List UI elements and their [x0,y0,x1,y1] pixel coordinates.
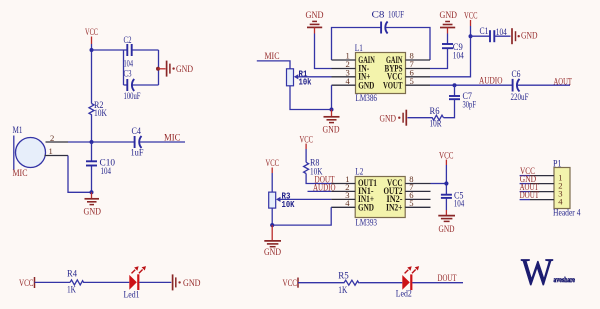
wire R4 to Led1 [84,281,129,283]
svg-text:220uF: 220uF [511,93,529,103]
svg-text:GND: GND [358,204,374,214]
wire VCC to pin 6 [430,26,471,77]
pin 5 of U2 [405,198,430,208]
svg-text:VCC: VCC [283,279,298,289]
pin 3 of U2 [331,190,355,200]
svg-text:GND: GND [323,126,340,136]
wire R1 wiper to pin 3 [298,76,331,78]
svg-text:1K: 1K [67,285,76,295]
wire VCC to R4 [35,281,71,283]
svg-text:GND: GND [176,65,193,75]
power port VCC (top-left) [85,28,98,44]
pin 1 of P1 [530,175,554,177]
svg-text:10K: 10K [282,199,295,210]
svg-text:LM393: LM393 [356,218,378,228]
wire MIC to R1 top [257,61,290,69]
pin 2 of P1 [530,183,554,185]
ground under C5 [438,198,455,235]
capacitor C6 220uF [511,70,529,103]
pin 4 of U2 [331,198,355,208]
wire C8 gain loop [332,28,431,61]
svg-text:GND: GND [84,208,102,218]
svg-text:10UF: 10UF [388,11,404,21]
svg-text:C4: C4 [132,127,142,137]
wire C6 to AOUT [518,84,570,86]
wire to C1 [471,35,490,37]
pin 3 of U1 [332,68,356,78]
pin 1 of U2 [331,174,355,184]
svg-text:LM386: LM386 [356,94,378,104]
svg-text:MIC: MIC [13,169,28,179]
power port VCC (Led1 row) [19,277,35,289]
resistor R2 10K [89,101,107,119]
node pin8/C5 [444,181,448,185]
ground under R3 [264,225,281,258]
svg-text:5: 5 [410,76,414,86]
potentiometer R3 10K [269,190,295,210]
resistor R4 1K [67,269,84,295]
svg-text:10R: 10R [430,120,442,130]
wire Led1 to GND [139,281,171,283]
wire VCC to pin 8 [445,165,447,194]
wire pin8 to VCC node [431,183,447,185]
capacitor C10 104 [86,159,115,178]
pin 2 of M1 [46,133,69,143]
pin 6 of U2 [405,190,430,200]
svg-text:W: W [521,252,553,294]
svg-text:Header 4: Header 4 [553,209,581,219]
power port GND (bar style, left of R6) [380,110,433,126]
capacitor C8 10UF [372,11,405,34]
svg-text:R6: R6 [430,107,440,117]
pin 6 of U1 [406,68,431,78]
pin 2 of U1 [332,59,356,69]
wire C2 right / loop verticals [124,50,159,85]
Waveshare logo [521,252,576,294]
svg-text:5: 5 [409,198,413,208]
wire VCC to R5 [298,282,343,284]
capacitor C9 104 [442,43,464,62]
svg-text:100uF: 100uF [124,92,141,102]
node R3 gnd junction [270,223,274,227]
resistor R6 10R [430,107,444,130]
pin 8 of U1 [406,51,431,61]
ground GND (above C9, inverted) [440,11,458,34]
svg-text:MIC: MIC [164,133,181,143]
pin 7 of U2 [405,182,430,192]
svg-text:C6: C6 [512,70,521,80]
ground GND (above LM386 pin2, inverted) [306,11,324,34]
svg-text:C1: C1 [480,27,489,37]
svg-text:DOUT: DOUT [438,274,457,284]
power port GND (bar style, right of C1) [494,28,537,44]
wire VCC to R8 [305,149,307,162]
svg-text:GND: GND [521,31,538,41]
node mic gnd junction [90,190,94,194]
power port VCC (above R3) [266,159,280,173]
svg-text:AUDIO: AUDIO [479,77,503,87]
wire VCC to R3 top [271,173,273,192]
svg-text:4: 4 [558,196,563,206]
resistor R8 10K [304,159,323,178]
wire VCC vertical to mic node [91,44,93,142]
svg-text:GND: GND [440,11,458,21]
pin 7 of U1 [406,59,431,69]
wire to C2/C3 bank [92,49,128,51]
wire R3 wiper to pin 3 [281,198,332,200]
svg-text:GND: GND [306,11,324,21]
capacitor C7 30pF [449,92,476,111]
pin 4 of P1 [530,199,554,201]
svg-text:104: 104 [453,52,464,62]
potentiometer R1 10k [287,69,312,88]
svg-text:M1: M1 [13,126,23,136]
wire GND to P1 [520,183,530,185]
power port GND (bar style, right of C2/C3) [158,61,193,77]
wire AOUT to P1 [520,191,530,193]
svg-text:1K: 1K [338,286,347,296]
power port VCC (Led2 row) [283,278,299,289]
svg-text:10K: 10K [94,109,107,119]
svg-text:R5: R5 [338,271,349,281]
node U1 gnd junction [330,108,334,112]
svg-text:30pF: 30pF [463,101,477,111]
wire to C7 [454,85,456,96]
svg-text:VCC: VCC [19,279,34,289]
LED Led2 [396,266,419,300]
capacitor C4 1uF [131,127,144,159]
wire C4 to MIC label [140,141,185,143]
svg-text:VOUT: VOUT [383,81,403,91]
pin 1 of U1 [332,51,356,61]
pin 8 of U2 [405,174,430,184]
svg-text:10k: 10k [299,77,312,88]
power port VCC (above C5) [439,151,454,165]
microphone M1 [13,126,46,179]
wire C7 to R6 [444,99,455,117]
wire pin4 down [331,85,333,109]
svg-text:4: 4 [346,76,351,86]
wire R8 to pin1 DOUT row [306,174,331,184]
capacitor C3 100uF [124,69,141,102]
svg-text:104: 104 [454,199,465,209]
svg-text:GND: GND [264,248,281,258]
svg-text:Led2: Led2 [396,290,412,300]
svg-text:104: 104 [124,60,134,70]
wire mic pin2 row [68,141,134,143]
node C2/C3 gnd tap [156,67,160,71]
ground under M1 [84,192,102,217]
power port GND (bar style, Led1) [173,274,201,290]
svg-text:1uF: 1uF [131,149,144,159]
pin 2 of U2 [331,182,355,192]
node mic row / C10 [90,140,94,144]
op-amp U1 LM386 body [355,44,406,104]
svg-text:1: 1 [49,146,53,156]
wire C9 to pin 7 [430,48,448,68]
svg-text:C8: C8 [372,11,385,21]
svg-text:GND: GND [439,225,455,235]
pin 5 of U1 [406,76,431,86]
node VCC/C2 junction [90,48,94,52]
wire mic pin1 loop to gnd [68,156,92,193]
svg-text:DOUT: DOUT [520,191,540,201]
svg-text:AOUT: AOUT [554,77,573,87]
svg-text:C3: C3 [124,69,132,79]
svg-text:Led1: Led1 [124,290,140,300]
wire AUDIO to pin 2 [308,190,332,192]
svg-text:GND: GND [358,81,374,91]
svg-text:4: 4 [345,198,350,208]
svg-text:GND: GND [380,114,397,124]
wire R3 bottom to gnd node [271,208,273,225]
capacitor C1 104 [480,27,507,42]
ground under U1 [323,110,340,136]
wire pin5/VOUT to C6 [430,84,512,86]
wire R1 bottom to gnd node [290,86,332,110]
capacitor C2 104 [124,36,134,70]
pin 4 of U1 [332,76,356,86]
node VCC/C1 [469,34,473,38]
pin 3 of P1 [530,191,554,193]
wire GND to pin 2 of U1 [315,34,332,69]
wire VCC to P1 [520,175,530,177]
wire pin 4 loop to gnd [272,207,331,225]
connector P1 Header 4 [553,159,581,218]
resistor R5 1K [338,271,359,296]
wire GND to C9 [447,34,449,44]
node VOUT/C7 [453,83,457,87]
svg-text:R4: R4 [67,269,77,279]
power port VCC (top right) [464,12,478,26]
LED Led1 [124,266,147,300]
svg-text:aveshare: aveshare [554,275,576,284]
svg-text:GND: GND [183,279,201,289]
pin 1 of M1 [45,146,69,156]
svg-text:IN2+: IN2+ [386,204,403,214]
svg-text:104: 104 [101,167,112,177]
wire C10 vertical [91,142,93,192]
wire DOUT to P1 [520,199,530,201]
comparator U2 LM393 body [355,168,405,229]
power port VCC (above R8) [300,135,314,149]
wire Led2 to DOUT [412,282,463,284]
capacitor C5 104 [441,191,465,209]
wire R5 to Led2 [359,282,402,284]
